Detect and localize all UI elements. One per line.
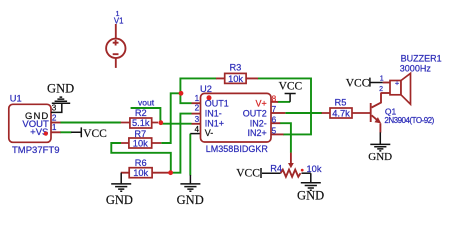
svg-text:+: + — [395, 78, 400, 87]
svg-text:IN2-: IN2- — [250, 119, 267, 129]
buzzer BUZZER1 — [379, 53, 442, 104]
wire R2 to U2 pin3 — [161, 123, 192, 125]
wire R3 right to U2 pin5 — [258, 78, 312, 134]
svg-text:R7: R7 — [134, 129, 146, 139]
junction dot at R2 right — [158, 120, 163, 125]
wire OUT1 node to R3 — [180, 78, 216, 93]
svg-text:VCC: VCC — [236, 167, 260, 179]
svg-text:GND: GND — [47, 82, 74, 96]
svg-text:GND: GND — [297, 189, 324, 203]
svg-text:2N3904(TO-92): 2N3904(TO-92) — [384, 116, 434, 125]
svg-text:3000Hz: 3000Hz — [400, 64, 432, 74]
ground at U2 pin4 — [177, 175, 204, 207]
wire U2 pin6 to R4 wiper — [280, 123, 291, 153]
svg-text:8: 8 — [272, 94, 277, 103]
ground above U1 (flipped) — [47, 82, 74, 104]
pin 1 marker dot of U2 — [207, 95, 212, 100]
wire R7 left to R6 node — [111, 143, 171, 171]
svg-text:10k: 10k — [133, 138, 148, 148]
wire U2 pin4 to GND — [189, 134, 191, 176]
svg-text:GND: GND — [177, 193, 204, 207]
svg-text:V-: V- — [205, 128, 214, 138]
wire U1 pin2 to R2 — [60, 122, 121, 124]
svg-text:5.1k: 5.1k — [132, 118, 150, 128]
power VCC at buzzer — [346, 77, 383, 89]
potentiometer R4 10k — [262, 153, 322, 177]
svg-text:VCC: VCC — [279, 80, 303, 92]
svg-text:V+: V+ — [256, 98, 267, 108]
temp sensor U1 TMP37FT9 — [9, 93, 61, 155]
wire R7 right to OUT1 node — [161, 93, 181, 143]
resistor R6 10k — [121, 158, 169, 178]
svg-text:U1: U1 — [10, 93, 22, 103]
svg-text:R3: R3 — [229, 63, 241, 73]
svg-text:6: 6 — [272, 115, 277, 124]
svg-text:R6: R6 — [135, 158, 147, 168]
power VCC at U2 pin8 — [279, 80, 303, 102]
svg-text:7: 7 — [272, 105, 277, 114]
resistor R2 5.1k — [121, 108, 158, 128]
wire U1 pin3 to ground — [51, 104, 62, 113]
svg-text:GND: GND — [106, 193, 133, 207]
wire U2 pin7 to R5 — [285, 112, 322, 114]
wire U2 pin2 to R6 node — [171, 114, 192, 173]
svg-text:3: 3 — [195, 115, 200, 124]
wire U2 pin8 to VCC — [278, 101, 291, 103]
svg-text:4.7k: 4.7k — [332, 108, 350, 118]
svg-text:10k: 10k — [228, 74, 243, 84]
svg-text:2: 2 — [52, 113, 57, 122]
svg-text:5: 5 — [272, 126, 277, 135]
ground at R4 — [297, 173, 324, 202]
svg-text:1: 1 — [380, 76, 384, 83]
svg-text:VCC: VCC — [346, 77, 370, 89]
svg-text:OUT2: OUT2 — [243, 108, 267, 118]
svg-text:2: 2 — [379, 86, 383, 93]
resistor R3 10k — [216, 63, 258, 84]
wire vout stub — [131, 108, 161, 123]
power VCC at U1 pin1 — [71, 127, 107, 140]
svg-text:IN1-: IN1- — [205, 108, 222, 118]
resistor R7 10k — [121, 129, 161, 149]
svg-text:IN2+: IN2+ — [248, 128, 267, 138]
svg-text:2: 2 — [195, 104, 200, 113]
wire OUT1 node to U2 pin1 — [180, 93, 191, 104]
svg-text:OUT1: OUT1 — [205, 98, 229, 108]
svg-text:4: 4 — [194, 125, 199, 134]
resistor R5 4.7k — [322, 97, 371, 118]
svg-text:GND: GND — [368, 151, 392, 163]
svg-text:10k: 10k — [133, 168, 148, 178]
pin 1 marker dot of U1 — [44, 132, 48, 136]
net label vout — [138, 97, 155, 107]
svg-text:VCC: VCC — [83, 128, 107, 140]
voltage source V1 — [106, 9, 125, 68]
wire U1 pin1 to VCC — [60, 131, 72, 133]
junction dot at OUT1 node — [179, 91, 184, 96]
ground at Q1 emitter — [368, 132, 392, 163]
svg-text:R4: R4 — [270, 163, 282, 173]
power VCC at R4 — [236, 167, 261, 179]
svg-text:TMP37FT9: TMP37FT9 — [12, 145, 60, 156]
transistor Q1 2N3904 — [371, 93, 435, 133]
svg-text:U2: U2 — [200, 84, 212, 94]
svg-text:3: 3 — [52, 104, 57, 113]
op-amp U2 LM358BIDGKR — [190, 84, 285, 154]
svg-text:vout: vout — [138, 97, 155, 107]
svg-text:R2: R2 — [135, 108, 147, 118]
svg-text:V1: V1 — [114, 17, 124, 26]
svg-text:1: 1 — [52, 123, 57, 132]
svg-text:IN1+: IN1+ — [205, 119, 224, 129]
svg-text:BUZZER1: BUZZER1 — [401, 53, 442, 63]
junction dot at R6 right — [168, 170, 173, 175]
svg-text:10k: 10k — [307, 164, 322, 174]
svg-text:LM358BIDGKR: LM358BIDGKR — [206, 144, 269, 154]
svg-text:R5: R5 — [335, 97, 347, 107]
svg-text:1: 1 — [195, 94, 200, 103]
ground at R6 left — [106, 173, 133, 207]
